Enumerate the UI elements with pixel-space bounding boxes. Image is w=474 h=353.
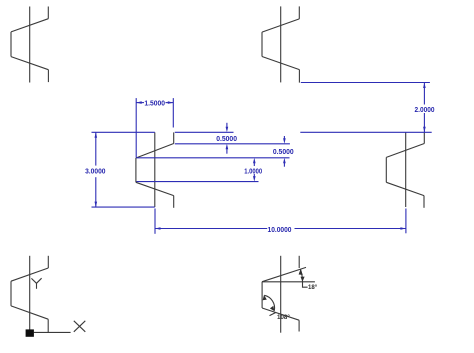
dim 1.0000 arrow tails — [253, 163, 255, 178]
UCS icon Y label — [31, 278, 41, 289]
dim 0.5000 (second) arrowheads — [283, 138, 286, 163]
UCS icon origin box — [26, 329, 34, 336]
dim 1.0000 arrowheads — [253, 158, 256, 182]
dim 3.0000 arrowheads — [95, 132, 98, 207]
svg-text:1.0000: 1.0000 — [244, 167, 262, 176]
dim 1.5000 dim line — [136, 102, 173, 104]
dim 0.5000 (second) arrow tails — [283, 136, 285, 167]
angle dim 18 deg: arc — [301, 269, 303, 282]
dim 2.0000 dim line — [423, 83, 425, 133]
svg-text:1.5000: 1.5000 — [144, 99, 165, 108]
dim 10.0000 arrowheads — [155, 227, 406, 230]
dim 2.0000 extension line bottom (long line) — [300, 131, 431, 133]
UCS icon X label — [74, 321, 86, 332]
svg-text:2.0000: 2.0000 — [415, 105, 435, 114]
dim 0.5000 shared reference line (y=143.8) — [175, 143, 290, 145]
angle dim 18 deg: leader — [303, 282, 308, 287]
dim 1.5000 extension line right — [172, 98, 174, 127]
dim 1.5000 arrowheads — [136, 101, 173, 104]
dim 3.0000 extension line bottom — [92, 206, 155, 208]
dim 2.0000 extension line top — [301, 82, 430, 84]
angle dim 108 deg: arrowheads — [263, 295, 275, 311]
dim 3.0000 dim line — [95, 132, 97, 207]
break symbol S3 (middle, dimensioned) — [136, 132, 174, 207]
angle dim 18 deg: arrowheads — [299, 269, 305, 282]
dim 0.5000 (first) top reference line — [175, 131, 234, 133]
dim 10.0000 extension line left — [154, 209, 156, 234]
dim 10.0000 extension line right — [405, 209, 407, 234]
dim 1.5000 extension line left — [135, 98, 137, 158]
svg-text:0.5000: 0.5000 — [273, 147, 294, 156]
break symbol S4 (mid-right) — [386, 132, 424, 207]
dim 1.0000 bottom reference line — [136, 181, 258, 183]
svg-text:3.0000: 3.0000 — [85, 166, 105, 175]
svg-text:0.5000: 0.5000 — [216, 134, 237, 143]
angle dim 108 deg: leader tick — [270, 313, 276, 316]
svg-text:10.0000: 10.0000 — [268, 225, 292, 234]
svg-text:108°: 108° — [277, 313, 290, 321]
break symbol S1 (top-left) — [11, 7, 48, 83]
UCS icon X axis — [34, 331, 71, 333]
break symbol S2 (top-right) — [262, 6, 299, 82]
dim 10.0000 dim line — [155, 228, 406, 230]
angle dim 18 deg: horizontal ray — [262, 281, 315, 283]
dim 0.5000 (first) arrows tails — [226, 123, 228, 154]
svg-text:18°: 18° — [308, 283, 318, 291]
angle dim 108 deg: arc — [264, 295, 274, 310]
dim 0.5000 (first) arrowheads — [226, 127, 229, 150]
break symbol S5 (bottom-left, with UCS icon) — [11, 256, 48, 332]
dim 2.0000 arrowheads — [423, 83, 426, 133]
break symbol S6 (bottom-right, with angle dims) — [262, 256, 306, 333]
dim 3.0000 extension line top — [92, 131, 155, 133]
reference line y=157.8 — [136, 157, 289, 159]
